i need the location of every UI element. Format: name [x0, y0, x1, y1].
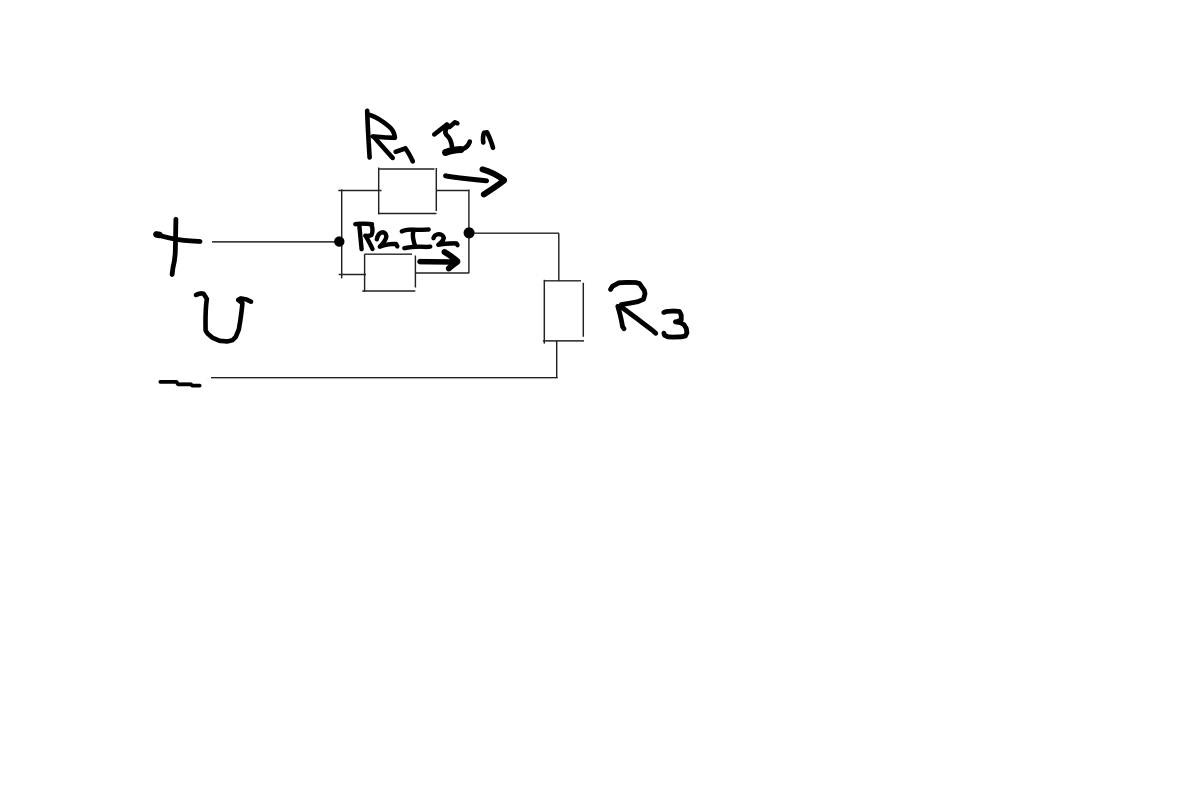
wire vertical below R3 [556, 341, 558, 378]
label I1 (handwritten) [434, 122, 493, 152]
wire top-right horizontal from R1 [436, 190, 469, 192]
node A junction dot (left) [334, 236, 344, 246]
minus terminal symbol [160, 382, 199, 386]
label R3 (handwritten) [611, 282, 687, 337]
arrow I2 (current direction) [420, 252, 457, 269]
resistor R2 (box) [362, 254, 415, 292]
label R2 (handwritten) [355, 224, 397, 250]
wire from + terminal to node A [212, 241, 335, 243]
wire bottom-right horizontal from R2 [416, 272, 469, 274]
plus terminal symbol [156, 219, 200, 274]
arrow I1 (current direction) [446, 169, 504, 194]
resistor R3 (box) [543, 280, 584, 344]
label U (source voltage) [196, 293, 251, 341]
label R1 (handwritten) [367, 111, 413, 162]
wire top-left horizontal to R1 [338, 190, 381, 192]
wire left rail vertical of parallel section [341, 189, 343, 278]
resistor R1 (box) [378, 168, 437, 215]
wire bottom return to - terminal [211, 377, 558, 379]
label I2 (handwritten) [402, 230, 458, 249]
wire bottom-left horizontal to R2 [339, 274, 366, 276]
wire from node B toward R3 [474, 232, 559, 234]
wire right rail vertical of parallel section [468, 190, 470, 274]
wire vertical down into R3 [558, 233, 560, 281]
node B junction dot (right) [464, 227, 475, 238]
